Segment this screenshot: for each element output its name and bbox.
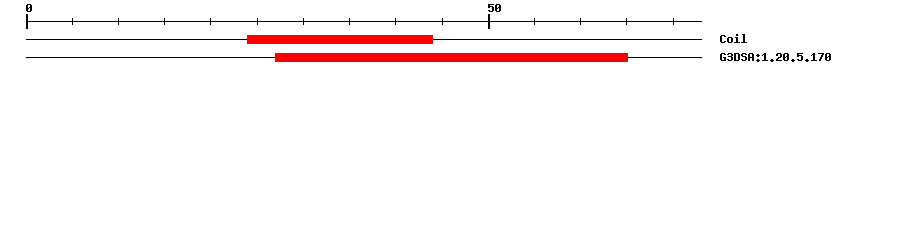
track 2 backbone line bbox=[26, 57, 702, 58]
track 1 label Coil bbox=[720, 32, 748, 45]
ruler minor tick x=626 bbox=[626, 18, 627, 25]
ruler minor tick x=349 bbox=[349, 18, 350, 25]
ruler minor tick x=257 bbox=[257, 18, 258, 25]
ruler label 50 bbox=[488, 1, 502, 14]
ruler minor tick x=72 bbox=[72, 18, 73, 25]
ruler minor tick x=442 bbox=[442, 18, 443, 25]
track 1 red match bar (Coil) bbox=[247, 35, 433, 44]
ruler minor tick x=210 bbox=[210, 18, 211, 25]
ruler major tick 50 bbox=[488, 14, 490, 29]
track 1 backbone line bbox=[26, 39, 702, 40]
track 2 red match bar (G3DSA:1.20.5.170) bbox=[275, 53, 628, 62]
ruler minor tick x=534 bbox=[534, 18, 535, 25]
ruler minor tick x=580 bbox=[580, 18, 581, 25]
ruler label 0 bbox=[26, 1, 33, 14]
ruler minor tick x=395 bbox=[395, 18, 396, 25]
ruler minor tick x=303 bbox=[303, 18, 304, 25]
ruler minor tick x=118 bbox=[118, 18, 119, 25]
ruler major tick 0 bbox=[26, 14, 28, 29]
track 2 label G3DSA:1.20.5.170 bbox=[720, 50, 832, 63]
ruler minor tick x=164 bbox=[164, 18, 165, 25]
ruler axis line bbox=[26, 21, 702, 22]
ruler minor tick x=673 bbox=[673, 18, 674, 25]
